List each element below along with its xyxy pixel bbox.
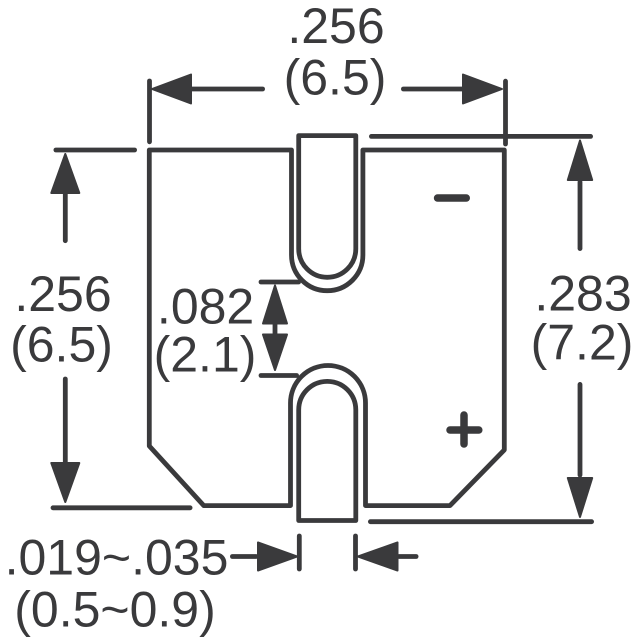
dimension shaft upper (right height dim) bbox=[578, 182, 583, 249]
svg-text:.256: .256 bbox=[287, 0, 384, 54]
capacitor body outline bbox=[149, 150, 504, 506]
arrowhead left-up bbox=[51, 154, 79, 193]
extension line left (top width dim) bbox=[147, 81, 152, 142]
arrowhead left-down bbox=[51, 463, 79, 502]
dimension shaft middle (gap dim) bbox=[273, 324, 278, 335]
extension line top (left height dim) bbox=[56, 148, 135, 153]
dimension line top width, right segment bbox=[403, 87, 462, 92]
dimension tail right (lead width dim) bbox=[399, 554, 416, 559]
svg-text:(6.5): (6.5) bbox=[10, 317, 113, 373]
arrowhead top-right bbox=[463, 75, 502, 104]
svg-text:.283: .283 bbox=[534, 265, 631, 321]
extension line top (right height dim) bbox=[371, 134, 590, 139]
extension line bottom (right height dim) bbox=[370, 519, 591, 524]
polarity plus symbol bbox=[450, 415, 479, 444]
svg-text:.019~.035: .019~.035 bbox=[5, 530, 229, 586]
svg-text:.256: .256 bbox=[14, 266, 111, 322]
tick right (lead width dim) bbox=[353, 536, 358, 569]
polarity minus symbol bbox=[438, 194, 467, 201]
dimension line top width, left segment bbox=[192, 87, 263, 92]
arrowhead lead-width left (points right) bbox=[258, 543, 297, 571]
extension line right (top width dim) bbox=[503, 81, 508, 144]
svg-text:(7.2): (7.2) bbox=[531, 315, 634, 371]
svg-text:(6.5): (6.5) bbox=[284, 50, 387, 106]
svg-text:(0.5~0.9): (0.5~0.9) bbox=[14, 582, 216, 638]
extension line top (gap dim) bbox=[261, 280, 299, 285]
dimension shaft upper (left height dim) bbox=[63, 194, 68, 241]
extension line bottom (gap dim) bbox=[261, 373, 297, 378]
negative terminal lead (top) bbox=[299, 136, 356, 278]
svg-text:(2.1): (2.1) bbox=[154, 327, 257, 383]
arrowhead gap-up bbox=[263, 286, 287, 324]
arrowhead right-up bbox=[568, 141, 592, 181]
arrowhead right-down bbox=[568, 478, 592, 517]
arrowhead gap-down bbox=[263, 335, 287, 371]
arrowhead top-left bbox=[152, 75, 191, 104]
tick left (lead width dim) bbox=[297, 536, 302, 569]
extension line bottom (left height dim) bbox=[53, 505, 190, 510]
dimension shaft lower (left height dim) bbox=[63, 379, 68, 462]
positive terminal lead (bottom) bbox=[299, 381, 356, 520]
arrowhead lead-width right (points left) bbox=[358, 543, 398, 571]
dimension shaft lower (right height dim) bbox=[578, 384, 583, 475]
dimension tail left (lead width dim) bbox=[232, 554, 256, 559]
